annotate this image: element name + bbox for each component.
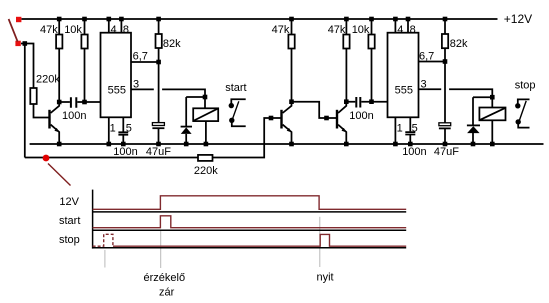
trace 12V waveform [93,196,407,210]
op-amp U1 555 timer [101,33,132,118]
svg-text:zár: zár [159,286,175,298]
axis 12V baseline [93,211,407,213]
svg-text:+12V: +12V [504,12,532,26]
node Q3 base junction [324,116,329,121]
svg-text:3: 3 [421,79,427,91]
svg-text:1: 1 [397,123,403,135]
svg-text:47k: 47k [40,24,58,36]
svg-text:220k: 220k [36,74,60,86]
axis vertical [92,190,94,249]
marker line nyit [319,217,321,267]
svg-text:start: start [59,215,80,227]
transistor Q3 [336,110,338,129]
wire Q2 collector to Q3 base [292,102,337,118]
diode D1 flyback [185,97,187,144]
resistor R4 82k [158,19,160,123]
svg-text:82k: 82k [163,38,181,50]
capacitor C2 100n on pin5 [118,132,128,134]
relay K1 coil [193,108,218,121]
trace stop waveform [113,234,406,246]
axis stop baseline [93,247,407,249]
transistor Q2 [280,110,282,129]
marker line sensor event [104,250,106,268]
pin 3 [419,89,493,97]
axis start baseline [93,229,407,231]
svg-text:220k: 220k [194,165,218,177]
wire R1 to Q1 base [34,104,49,118]
capacitor C4 100n coupling [346,101,387,103]
svg-text:100n: 100n [402,146,426,158]
svg-text:82k: 82k [450,38,468,50]
svg-text:10k: 10k [352,24,370,36]
resistor R7 47k [345,19,347,102]
wire pin3 node to relay K2 [473,97,492,107]
svg-text:555: 555 [108,84,126,96]
svg-text:nyit: nyit [317,272,334,284]
junction dots mid nodes [57,59,495,104]
resistor R2 47k [58,19,60,102]
svg-text:6,7: 6,7 [133,51,148,63]
svg-text:100n: 100n [349,110,373,122]
pin 5 [409,117,411,144]
pin 8 [407,19,409,33]
svg-text:4: 4 [397,24,403,36]
capacitor C1 100n coupling [59,101,100,103]
op-amp U2 555 timer [388,33,419,118]
timing diagram [105,217,320,268]
junction dots ground rail [57,142,495,147]
wire +12V top rail [22,18,498,20]
wire long vertical to sensor line [24,44,26,158]
svg-text:start: start [225,82,246,94]
svg-text:47uF: 47uF [146,146,171,158]
svg-text:8: 8 [410,24,416,36]
svg-text:47k: 47k [272,24,290,36]
svg-text:1: 1 [110,122,116,134]
svg-text:4: 4 [111,24,117,36]
resistor R3 10k [84,19,86,102]
pin 4 [394,19,396,33]
pin 5 [122,117,124,144]
ground rail [30,143,544,145]
capacitor C5 100n on pin5 [405,132,415,134]
resistor R6 47k [291,19,293,102]
trace start waveform [93,216,407,228]
pin 6,7 [419,61,446,63]
capacitor C6 47uF electrolytic [439,123,451,126]
transistor Q1 [48,110,50,129]
wire annotation to 12V trace [48,164,71,186]
marker line erzekelo/zar [160,231,162,268]
svg-text:47k: 47k [328,24,346,36]
wire 220k to Q2 base [213,118,281,158]
node sensor tap (red) [43,155,50,162]
svg-text:3: 3 [133,79,139,91]
pin 3 [131,89,205,97]
wire pin3 node to relay K1 [186,97,205,108]
svg-text:6,7: 6,7 [419,51,434,63]
pin 4 [108,19,110,33]
svg-text:47uF: 47uF [434,146,459,158]
svg-text:100n: 100n [62,110,86,122]
pin 1 [108,117,110,144]
node A junction at S1 output [23,41,28,46]
resistor R1 220k [30,88,36,104]
svg-text:8: 8 [123,24,129,36]
svg-text:10k: 10k [64,24,82,36]
resistor R5 220k horizontal [198,155,213,161]
pin 6,7 [131,61,159,63]
wire from S1 lower terminal [21,44,34,89]
svg-text:100n: 100n [113,146,137,158]
svg-text:stop: stop [59,234,80,246]
resistor R8 10k [371,19,373,102]
capacitor C3 47uF electrolytic [152,123,164,126]
switch S1 sensor contact (red terminals, open lever) [15,17,21,46]
pin 8 [120,19,122,33]
svg-text:érzékelő: érzékelő [144,272,186,284]
svg-text:stop: stop [515,79,536,91]
diode D2 flyback [472,97,474,144]
svg-text:12V: 12V [59,196,79,208]
relay K2 coil [479,108,505,121]
svg-text:555: 555 [395,84,413,96]
trace stop dashed pulse [93,234,113,246]
resistor R9 82k [444,19,446,123]
node Q2 base junction [269,116,274,121]
junction dots top rail [57,17,447,22]
wire sensor line to 220k [25,157,198,159]
pin 1 [394,117,396,144]
